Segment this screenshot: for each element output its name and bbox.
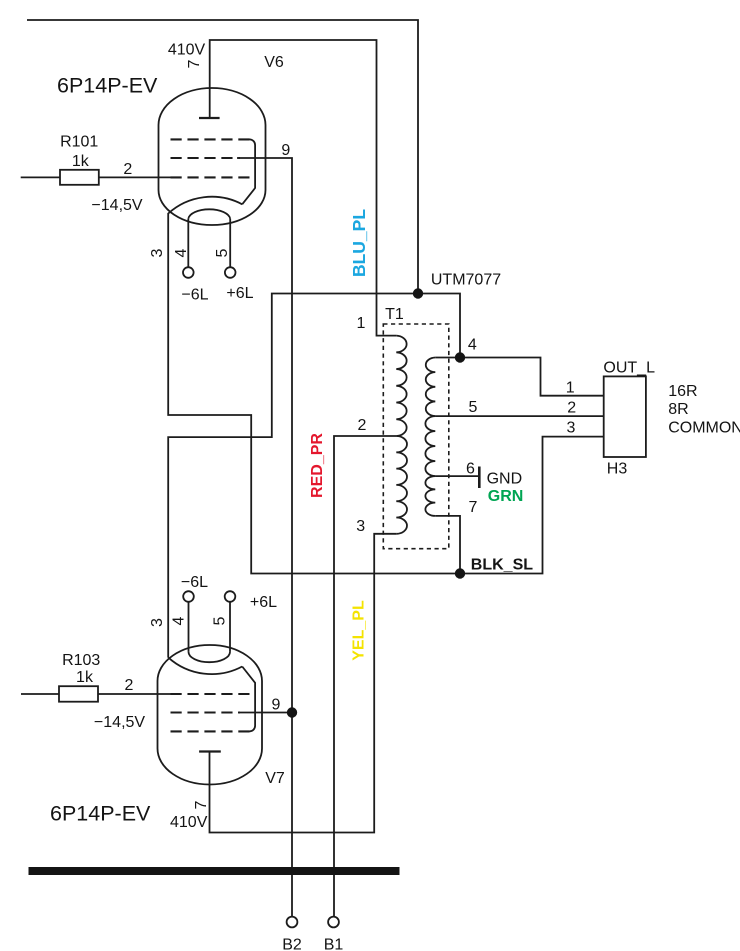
svg-text:5: 5 [214, 248, 231, 257]
svg-text:OUT_L: OUT_L [603, 359, 655, 376]
resistor R101 lead left [21, 176, 60, 178]
svg-text:−14,5V: −14,5V [91, 197, 142, 214]
resistor R101 lead right to V6 grid [99, 176, 171, 178]
wire T1 pin 5 to H3 pin 2 [435, 415, 603, 417]
svg-text:V6: V6 [264, 54, 284, 71]
svg-text:YEL_PL: YEL_PL [351, 600, 368, 661]
tube V6 grid g2 dashed pin 9 [171, 157, 241, 159]
svg-text:4: 4 [468, 337, 477, 354]
transformer T1 primary winding lower pin2-pin3 [396, 436, 407, 534]
resistor R101 body [60, 170, 99, 185]
tube V7 suppressor hook [242, 667, 255, 732]
svg-text:7: 7 [193, 800, 210, 809]
tube V6 envelope [159, 88, 266, 225]
tube V6 heater terminal -6L [183, 267, 194, 278]
svg-text:T1: T1 [385, 306, 404, 323]
tube V6 heater terminal +6L [225, 267, 236, 278]
svg-text:+6L: +6L [250, 594, 277, 611]
svg-text:2: 2 [567, 400, 576, 417]
resistor R103 lead right to V7 grid [98, 693, 171, 695]
wire screen bus V6 pin 9 to B2 [237, 158, 292, 917]
svg-text:1: 1 [357, 315, 366, 332]
tube V7 grid g3 dashed [171, 730, 250, 732]
svg-text:BLK_SL: BLK_SL [471, 556, 533, 573]
wire V6 cathode to BLK_SL node [168, 213, 460, 574]
tube V7 heater terminal -6L [183, 591, 194, 602]
svg-text:V7: V7 [265, 770, 285, 787]
svg-text:H3: H3 [607, 461, 628, 478]
svg-text:COMMON: COMMON [668, 419, 740, 436]
tube V7 anode bar pin 7 [199, 750, 221, 752]
wire V7 pin 9 stub [238, 712, 292, 714]
tube V7 envelope [158, 645, 263, 784]
tube V6 heater leg pin 5 [229, 219, 231, 267]
svg-text:UTM7077: UTM7077 [431, 271, 501, 288]
tube V6 cathode arc pin 3 [168, 197, 242, 214]
svg-text:410V: 410V [170, 814, 208, 831]
tube V6 grid g1 dashed pin 2 [171, 176, 250, 178]
svg-text:16R: 16R [668, 383, 697, 400]
transformer T1 secondary lead pin 4 [435, 357, 460, 359]
svg-text:2: 2 [358, 417, 367, 434]
wire T1 pin 7 to BLK_SL node [435, 516, 460, 574]
svg-text:GRN: GRN [488, 488, 524, 505]
ground bar GND [478, 467, 481, 489]
tube V7 grid g2 dashed pin 9 [171, 711, 241, 713]
transformer T1 secondary winding pin5-pin6 [425, 416, 435, 476]
tube V6 anode bar pin 7 [199, 117, 220, 119]
wire T1 pin 2 center tap to B1 [334, 436, 396, 917]
svg-text:7: 7 [186, 59, 203, 68]
wire V7 anode to T1 pin 3 [210, 534, 397, 833]
svg-text:8R: 8R [668, 401, 688, 418]
svg-text:−6L: −6L [181, 574, 208, 591]
wire T1 pin 6 to GND [435, 475, 479, 477]
wire H3 pin 3 to BLK_SL node [460, 437, 604, 574]
svg-text:7: 7 [469, 499, 478, 516]
svg-text:B2: B2 [282, 937, 302, 951]
svg-text:GND: GND [487, 471, 523, 488]
svg-text:2: 2 [123, 161, 132, 178]
tube V7 heater loop [189, 652, 231, 662]
svg-text:4: 4 [170, 616, 187, 625]
transformer T1 secondary winding pin4-pin5 [426, 358, 436, 417]
tube V7 heater leg pin 4 [188, 602, 190, 652]
svg-text:9: 9 [272, 696, 281, 713]
wire top supply rail [27, 20, 418, 294]
svg-text:BLU_PL: BLU_PL [349, 209, 369, 277]
svg-text:6P14P-EV: 6P14P-EV [50, 801, 151, 825]
tube V7 heater leg pin 5 [229, 602, 231, 652]
svg-text:3: 3 [149, 248, 166, 257]
junction node UTM7077 [413, 288, 423, 298]
svg-text:1k: 1k [76, 669, 94, 686]
svg-text:6: 6 [466, 460, 475, 477]
wire T1 pin 4 to H3 pin 1 [460, 358, 604, 396]
resistor R103 body [59, 686, 98, 702]
svg-text:RED_PR: RED_PR [309, 433, 326, 498]
tube V7 cathode arc pin 3 [168, 657, 242, 674]
svg-text:1: 1 [566, 380, 575, 397]
terminal B1 circle [328, 917, 339, 928]
junction node T1 pin 4 [455, 352, 465, 362]
tube V6 suppressor hook [242, 139, 255, 204]
junction node V7 pin 9 [287, 707, 297, 717]
svg-text:4: 4 [173, 248, 190, 257]
connector H3 body [604, 376, 646, 457]
tube V6 grid g3 dashed [171, 138, 250, 140]
svg-text:−14,5V: −14,5V [94, 714, 145, 731]
svg-text:9: 9 [281, 142, 290, 159]
wire UTM7077 node to V7 cathode [168, 294, 418, 658]
svg-text:R101: R101 [60, 134, 98, 151]
transformer T1 primary winding upper pin1-pin2 [396, 336, 406, 436]
terminal B2 circle [287, 917, 298, 928]
tube V7 grid g1 dashed pin 2 [171, 693, 250, 695]
svg-text:1k: 1k [72, 153, 90, 170]
junction node BLK_SL [455, 568, 465, 578]
svg-text:6P14P-EV: 6P14P-EV [57, 74, 158, 98]
wire V6 anode to T1 pin 1 [210, 40, 397, 336]
svg-text:+6L: +6L [226, 285, 253, 302]
transformer T1 secondary winding pin6-pin7 [425, 476, 435, 516]
tube V7 heater terminal +6L [225, 591, 236, 602]
svg-text:2: 2 [125, 677, 134, 694]
resistor R103 lead left [21, 693, 59, 695]
tube V6 heater loop [188, 209, 230, 219]
svg-text:B1: B1 [324, 937, 344, 951]
power bus thick bar [29, 867, 400, 875]
svg-text:5: 5 [469, 399, 478, 416]
svg-text:−6L: −6L [181, 287, 208, 304]
transformer T1 shield dashed box [383, 324, 449, 549]
svg-text:3: 3 [149, 618, 166, 627]
svg-text:410V: 410V [168, 42, 206, 59]
tube V6 heater leg pin 4 [187, 219, 189, 267]
svg-text:5: 5 [211, 616, 228, 625]
svg-text:3: 3 [356, 518, 365, 535]
svg-text:R103: R103 [62, 652, 100, 669]
svg-text:3: 3 [567, 419, 576, 436]
wire UTM7077 node to T1 pin 4 [418, 294, 460, 358]
